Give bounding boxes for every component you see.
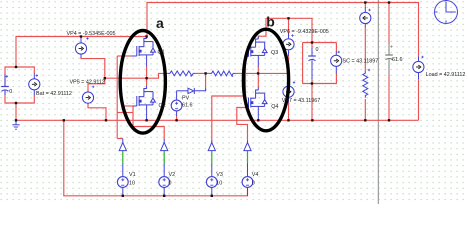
svg-text:VP5 = 42.9112: VP5 = 42.9112 xyxy=(70,79,105,85)
wire V1 apex stub xyxy=(122,139,124,143)
polarity mark battery capacitor xyxy=(6,75,8,77)
wire R1 to R2 link xyxy=(195,72,209,74)
input arrow V1 xyxy=(119,143,126,151)
wire Q3 gate lead xyxy=(246,56,249,58)
wire Q3 drain lead xyxy=(257,37,259,40)
svg-text:61.6: 61.6 xyxy=(392,57,403,63)
wire Q4 drain lead xyxy=(257,88,259,91)
junction resistor midpoint xyxy=(204,72,206,74)
junction ground rail VP5 xyxy=(105,119,107,121)
junction ground rail capacitor xyxy=(388,119,390,121)
wire battery capacitor top lead xyxy=(4,74,6,86)
wire Q2 drain lead xyxy=(146,86,148,89)
wire Q3 feed from rail2 xyxy=(258,18,266,38)
wire V2 riser column to Q2 gate xyxy=(133,106,164,140)
junction Q1 drain xyxy=(145,35,147,37)
highlight ellipse a xyxy=(120,31,165,134)
capacitor Bat0 plates xyxy=(1,86,9,88)
polarity mark VP4 xyxy=(86,37,88,39)
wire shunt meter stubs xyxy=(364,7,366,27)
svg-text:VP6 = -9.4329E-005: VP6 = -9.4329E-005 xyxy=(280,29,329,35)
wire V1 bottom stub xyxy=(122,187,124,195)
svg-text:V1: V1 xyxy=(129,172,136,178)
svg-text:Q2: Q2 xyxy=(159,103,166,109)
wire VP4 top stub xyxy=(80,37,82,43)
wire V1 green segment xyxy=(122,151,124,164)
wire PV bottom stub xyxy=(176,111,178,116)
capacitor C2 plates xyxy=(308,55,316,57)
wire V3 apex stub xyxy=(211,141,213,143)
wire V1 top stub xyxy=(122,163,124,177)
wire PV bottom to ground rail xyxy=(176,116,178,121)
wire battery loop top xyxy=(5,67,34,86)
wire battery negative return xyxy=(64,120,248,196)
input arrow V2 xyxy=(161,143,168,151)
wire V4 green segment xyxy=(247,151,249,164)
wire Bat meter top stub xyxy=(33,73,35,79)
wire V2 bottom stub xyxy=(163,187,165,195)
ground xyxy=(12,120,19,129)
junction node B VP6 VP7 xyxy=(287,72,289,74)
meter Load xyxy=(413,61,424,72)
wire V3 green segment xyxy=(211,151,213,164)
wire R2 to node B xyxy=(236,72,259,74)
wire PV diode cathode row to resistor midpoint xyxy=(194,88,205,91)
wire SC loop top xyxy=(303,42,337,44)
wire PV top stub xyxy=(176,91,178,100)
junction battery top xyxy=(15,66,17,68)
wire shunt meter column upper xyxy=(364,3,366,8)
wire V4 apex stub xyxy=(247,141,249,143)
polarity mark Bat xyxy=(36,74,38,76)
svg-text:b: b xyxy=(266,13,275,29)
resistor R1 terminal dot xyxy=(190,75,191,76)
wire V1 riser xyxy=(117,56,123,139)
junction battery bottom xyxy=(15,102,17,104)
junction SC loop bottom xyxy=(311,82,313,84)
source V4 xyxy=(242,177,253,188)
wire SC loop left side xyxy=(302,43,304,84)
junction top rail shunt xyxy=(364,1,366,3)
wire Q2 gate row xyxy=(123,105,134,107)
junction ground rail shunt xyxy=(364,119,366,121)
svg-text:Q4: Q4 xyxy=(271,104,278,110)
resistor R1 xyxy=(167,71,195,76)
junction ground rail PV xyxy=(175,119,177,121)
junction top rail capacitor xyxy=(388,1,390,3)
junction ground rail left xyxy=(15,119,17,121)
svg-text:VP4 = -9.5345E-005: VP4 = -9.5345E-005 xyxy=(67,31,116,37)
wire VP6 bottom to node B xyxy=(288,56,290,74)
junction ground rail return xyxy=(63,119,65,121)
wire Q4 gate lead xyxy=(246,107,249,109)
svg-text:V4: V4 xyxy=(252,172,259,178)
wire Q4 drain from node B xyxy=(257,73,259,88)
meter Bat xyxy=(29,79,40,90)
wire Load meter stubs xyxy=(418,57,420,80)
junction return rail V1 xyxy=(122,195,124,197)
wire VP7 top stub xyxy=(288,73,290,82)
junction ground rail SC xyxy=(311,119,313,121)
wire VP5 top jog xyxy=(88,78,105,92)
capacitor C3 output gray xyxy=(385,44,393,76)
wire Q2 source lead xyxy=(146,105,148,120)
meter SC xyxy=(331,55,342,66)
wire Q2 drain from node A xyxy=(146,78,148,86)
meter VP5 xyxy=(82,92,93,103)
wire Bat meter bottom stub xyxy=(33,90,35,96)
svg-text:Bat = 42.91112: Bat = 42.91112 xyxy=(36,91,72,97)
transistor Q2 xyxy=(137,89,156,107)
polarity mark shunt meter xyxy=(368,9,370,11)
wire Q1 source lead xyxy=(146,55,148,66)
wire output capacitor column upper xyxy=(388,3,390,45)
input arrow V4 xyxy=(244,143,251,151)
wire node A row to VP5 xyxy=(105,77,147,79)
junction ground rail Q4 xyxy=(257,119,259,121)
svg-text:a: a xyxy=(156,15,164,31)
wire rail2 node b top xyxy=(266,18,312,48)
source PV xyxy=(171,100,182,111)
wire main ground rail xyxy=(16,119,419,121)
clock icon xyxy=(435,1,458,24)
svg-text:VP7 = 43.11967: VP7 = 43.11967 xyxy=(282,98,320,104)
svg-text:10: 10 xyxy=(129,180,135,186)
wire V2 apex stub xyxy=(163,139,165,143)
source V2 xyxy=(159,177,170,188)
svg-text:61.6: 61.6 xyxy=(182,102,193,108)
wire VP4 bottom stub xyxy=(80,54,82,58)
polarity mark SC xyxy=(338,51,340,53)
wire V2 top stub xyxy=(163,163,165,177)
wire PV column blue part xyxy=(205,88,207,91)
transistor Q3 xyxy=(248,39,267,57)
junction ground rail Q2 xyxy=(145,119,147,121)
wire SC capacitor top lead xyxy=(311,48,313,56)
wire node A to resistor R1 xyxy=(147,73,167,78)
transistor Q4 xyxy=(248,90,267,108)
wire Q1 gate lead xyxy=(132,55,137,57)
polarity mark Load xyxy=(421,56,423,58)
input arrow V3 xyxy=(208,143,215,151)
svg-text:0: 0 xyxy=(169,180,172,186)
wire SC capacitor bottom lead xyxy=(311,60,313,79)
wire VP6 top stub xyxy=(288,18,290,33)
wire Q2 gate stub column xyxy=(122,106,124,113)
wire battery loop bottom xyxy=(5,91,34,103)
wire SC loop return to ground rail xyxy=(311,79,313,121)
wire SC loop bottom xyxy=(303,73,337,84)
resistor R3 shunt vertical xyxy=(363,71,368,98)
meter shunt current xyxy=(360,12,371,23)
wire V3 riser to Q3 gate xyxy=(212,57,246,143)
node A junction xyxy=(145,77,147,79)
polarity mark output capacitor xyxy=(390,45,392,47)
wire Q1 source to node A xyxy=(146,66,148,78)
wire ground column xyxy=(15,103,17,120)
wire Q4 source lead xyxy=(257,107,259,121)
wire Q3 source lead xyxy=(257,56,259,67)
wire node B row to VP6 VP7 column xyxy=(258,72,288,74)
junction return rail V3 xyxy=(211,195,213,197)
wire load column xyxy=(418,79,420,121)
wire V4 riser to Q4 gate xyxy=(237,108,248,143)
wire V3 bottom stub xyxy=(211,187,213,195)
wire V3 top stub xyxy=(211,163,213,177)
polarity mark VP5 xyxy=(92,86,94,88)
wire left top rail to VP4 and Q1 xyxy=(16,37,147,68)
wire SC meter stubs xyxy=(335,52,337,74)
svg-text:0: 0 xyxy=(316,47,319,53)
svg-text:PV: PV xyxy=(182,95,190,101)
wire VP7 stubs xyxy=(288,82,290,103)
wire Q3 source to node B xyxy=(257,66,259,73)
junction VP4 VP5 tap xyxy=(104,77,106,79)
wire Q1 drain lead xyxy=(146,37,148,39)
source V3 xyxy=(206,177,217,188)
wire VP5 stubs xyxy=(87,91,89,104)
wire VP5 bottom jog xyxy=(88,104,106,121)
svg-text:Q3: Q3 xyxy=(271,50,278,56)
wire PV diode anode row xyxy=(177,90,188,92)
diode D1 triangle xyxy=(188,88,194,93)
transistor Q1 xyxy=(137,39,156,57)
wire gate cross row xyxy=(117,112,133,114)
wire shunt resistor column xyxy=(364,26,366,120)
junction SC loop top xyxy=(311,41,313,43)
highlight ellipse b xyxy=(243,29,288,131)
gray sheet boundary line xyxy=(377,0,379,204)
wire top supply rail xyxy=(147,3,419,59)
svg-text:SC = 43.11897: SC = 43.11897 xyxy=(343,59,379,65)
resistor R2 xyxy=(210,71,236,76)
wire V2 green segment xyxy=(163,151,165,164)
svg-text:10: 10 xyxy=(216,180,222,186)
junction VP4 rail xyxy=(80,35,82,37)
svg-text:V3: V3 xyxy=(216,172,223,178)
polarity mark shunt resistor xyxy=(368,69,370,71)
wire VP6 stubs xyxy=(288,33,290,56)
wire Q1 gate row from V1 riser xyxy=(117,55,132,57)
node B junction xyxy=(257,72,259,74)
wire output capacitor column lower xyxy=(388,75,390,120)
svg-text:0: 0 xyxy=(9,89,12,95)
wire V4 top stub xyxy=(247,163,249,177)
wire V4 bottom stub xyxy=(247,187,249,195)
meter VP4 xyxy=(75,43,86,54)
polarity mark VP7 xyxy=(293,81,295,83)
wire Q3 gate row xyxy=(246,56,247,58)
wire VP4 bottom jog xyxy=(81,58,105,79)
wire SC loop right upper xyxy=(335,43,337,53)
wire battery capacitor bottom lead xyxy=(4,91,6,95)
meter VP6 xyxy=(283,39,294,50)
wire VP7 bottom to ground rail xyxy=(288,102,290,120)
source V1 xyxy=(117,177,128,188)
svg-text:Load = 42.91112: Load = 42.91112 xyxy=(426,72,466,78)
svg-text:V2: V2 xyxy=(169,172,176,178)
diode D1 cathode bar xyxy=(193,88,195,94)
junction return rail V2 xyxy=(163,195,165,197)
svg-text:Q1: Q1 xyxy=(158,50,165,56)
junction ground rail VP7 xyxy=(287,119,289,121)
resistor R2 terminal dot xyxy=(232,76,233,77)
meter VP7 xyxy=(283,86,294,97)
junction rail2 VP6 xyxy=(287,17,289,19)
svg-text:0: 0 xyxy=(252,180,255,186)
wire Q2 gate lead xyxy=(133,105,137,107)
polarity mark VP6 xyxy=(291,34,293,36)
wire PV injection column xyxy=(205,73,207,88)
